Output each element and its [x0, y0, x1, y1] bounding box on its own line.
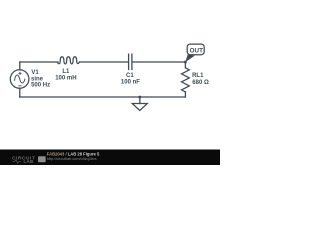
- svg-text:100 mH: 100 mH: [55, 76, 76, 82]
- svg-text:C1: C1: [126, 73, 134, 79]
- footer logo LAB badge: [38, 156, 46, 162]
- wire: V1 top lead up to top rail: [19, 62, 21, 70]
- svg-text:http://circuitlab.com/c6kq4bvs: http://circuitlab.com/c6kq4bvs: [47, 157, 97, 161]
- resistor RL1 top lead: [184, 62, 186, 68]
- wire: ground stub: [139, 97, 141, 104]
- V1 plus mark: [18, 72, 21, 75]
- V1 minus mark: [18, 85, 21, 87]
- OUT flag box: [187, 44, 204, 55]
- wire: V1 bottom lead: [19, 88, 21, 97]
- OUT flag pointer: [185, 55, 195, 63]
- svg-text:OUT: OUT: [190, 47, 203, 54]
- voltage source V1 circle: [10, 70, 29, 89]
- wire: top rail from V1 to L1: [20, 61, 58, 63]
- resistor RL1 bottom lead: [184, 92, 186, 97]
- capacitor C1 plates: [129, 54, 132, 69]
- ground symbol triangle: [132, 104, 147, 111]
- svg-text:680 Ω: 680 Ω: [192, 80, 209, 86]
- node: output junction dot: [184, 61, 187, 64]
- svg-text:LAB: LAB: [24, 159, 34, 164]
- wire: C1 to output node: [132, 61, 185, 63]
- svg-text:100 nF: 100 nF: [121, 79, 140, 85]
- inductor L1: [58, 57, 80, 64]
- svg-text:V1: V1: [31, 70, 39, 76]
- node: ground junction dot: [139, 96, 142, 99]
- svg-text:FAB2043 / LAB 28 Figure 5: FAB2043 / LAB 28 Figure 5: [47, 151, 100, 156]
- wire: bottom rail: [20, 96, 186, 98]
- resistor RL1 zigzag: [182, 68, 190, 92]
- svg-text:RL1: RL1: [192, 73, 204, 79]
- footer bar: [0, 150, 220, 166]
- svg-text:500 Hz: 500 Hz: [31, 83, 50, 89]
- V1 sine wave icon: [15, 75, 25, 83]
- svg-text:L1: L1: [62, 69, 70, 75]
- footer logo wave: [13, 160, 22, 163]
- svg-text:sine: sine: [31, 76, 44, 82]
- wire: L1 to C1: [80, 61, 129, 63]
